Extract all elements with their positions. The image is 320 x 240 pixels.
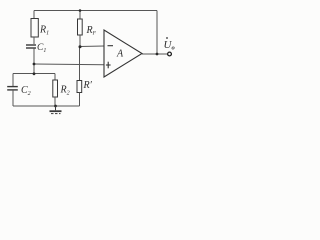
svg-text:C2: C2: [21, 85, 31, 97]
node shunt branch: [33, 72, 36, 75]
wire R2 bottom lead: [54, 97, 56, 106]
capacitor C1: [26, 45, 36, 48]
node P noninverting: [33, 63, 36, 66]
capacitor C2: [7, 87, 18, 90]
wire C2 branch left/down: [12, 74, 14, 87]
terminal output circle: [168, 52, 172, 56]
svg-text:Uo: Uo: [164, 39, 176, 52]
wire R1 to C1: [33, 37, 35, 44]
wire noninverting input: [34, 63, 104, 66]
svg-text:R2: R2: [60, 85, 70, 97]
node junction top rail / Rb: [79, 9, 82, 12]
svg-text:A: A: [116, 49, 124, 60]
wire R2 top lead: [54, 74, 56, 81]
wire C1 to node P: [33, 48, 35, 74]
svg-text:C1: C1: [37, 43, 46, 54]
wire Rb to inverting node: [79, 35, 81, 47]
wire R' bottom lead: [79, 93, 81, 107]
wire Rb top lead: [79, 11, 81, 20]
svg-text:RF: RF: [86, 25, 97, 37]
wire inverting input: [80, 45, 104, 48]
wire C2 bottom lead: [12, 90, 14, 106]
svg-text:R1: R1: [39, 25, 49, 37]
wire R' top lead: [79, 47, 81, 81]
wire bottom ground rail: [13, 105, 80, 107]
svg-text:R′: R′: [83, 80, 93, 91]
wire shunt branch top: [13, 73, 55, 75]
node output: [156, 53, 159, 56]
ground: [50, 106, 62, 114]
wire output to terminal: [142, 53, 168, 55]
wire feedback vertical: [156, 11, 158, 55]
wire top rail: [34, 10, 157, 12]
resistor R': [77, 81, 82, 93]
node ground rail: [54, 105, 57, 108]
wire R1 top lead: [33, 11, 35, 19]
resistor R1: [31, 19, 38, 38]
op-amp U1: [104, 30, 142, 77]
resistor R2: [53, 80, 58, 97]
node inverting input: [79, 45, 82, 48]
label Uo dot accent: [166, 37, 168, 39]
resistor Rb: [78, 19, 83, 35]
